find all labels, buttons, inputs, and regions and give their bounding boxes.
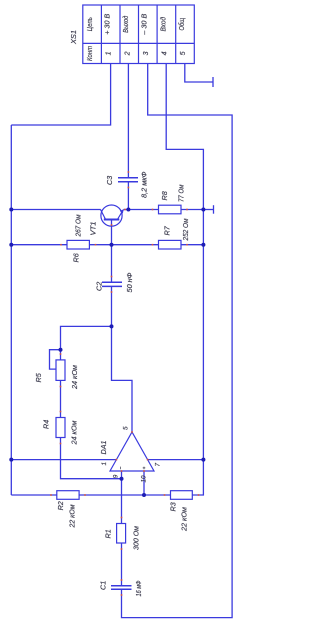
resistor R3 <box>171 491 193 500</box>
node L bus/R8/terminal <box>201 208 205 212</box>
capacitor C2 <box>102 282 122 286</box>
node J bus/pin7 <box>201 458 205 462</box>
svg-text:R8: R8 <box>160 191 169 200</box>
wire pin3 -30V rail around bottom to C1 <box>122 64 233 618</box>
svg-text:22 кОм: 22 кОм <box>182 507 189 532</box>
wire R7 bottom to input bus <box>181 244 203 246</box>
svg-text:Выход: Выход <box>122 16 130 33</box>
svg-text:4: 4 <box>161 51 168 55</box>
svg-text:R4: R4 <box>42 420 51 429</box>
resistor R1 <box>117 524 126 544</box>
svg-text:252 Ом: 252 Ом <box>183 218 190 241</box>
wire pin9 node riser to R4 <box>61 438 122 479</box>
wire rail corner down to R2 <box>11 494 57 496</box>
svg-text:2: 2 <box>124 51 131 56</box>
node F base <box>110 243 114 247</box>
resistor R7 <box>159 240 182 249</box>
wire base lead VT1 <box>111 220 113 245</box>
svg-text:77 Ом: 77 Ом <box>179 184 186 202</box>
svg-text:Вход: Вход <box>159 17 167 32</box>
wire pin1 +30V from table to rail <box>11 64 110 126</box>
capacitor C3 <box>118 178 138 182</box>
svg-text:С1: С1 <box>99 581 108 590</box>
wire emitter to node <box>124 209 129 211</box>
svg-text:16 мФ: 16 мФ <box>136 580 143 596</box>
wire C3 to emitter node <box>127 182 129 210</box>
wire pin4 Vhod input bus to R3 <box>166 64 203 496</box>
svg-text:22 кОм: 22 кОм <box>70 504 77 528</box>
svg-text:1: 1 <box>101 462 108 466</box>
wire op-amp pin10 to R2/R3 node <box>143 471 145 495</box>
node B rail/R6 <box>9 243 13 247</box>
svg-text:9: 9 <box>113 474 120 478</box>
wire R1 to C1 <box>121 543 123 586</box>
wire op-amp output pin5 to C2 <box>112 286 133 432</box>
wire R5 to output line <box>61 326 112 360</box>
svg-text:3: 3 <box>143 51 150 55</box>
resistor R2 <box>57 491 79 500</box>
resistor R6 <box>67 240 89 249</box>
svg-text:10: 10 <box>141 475 148 483</box>
svg-text:R7: R7 <box>163 225 172 235</box>
svg-text:– 30 В: – 30 В <box>142 13 149 35</box>
svg-text:R1: R1 <box>104 529 113 538</box>
node E pin10/R2R3 <box>142 493 146 497</box>
wire terminal stub on input bus <box>203 209 213 211</box>
wire terminal bar on input bus <box>213 205 215 214</box>
svg-text:XS1: XS1 <box>69 30 78 45</box>
svg-text:24 кОм: 24 кОм <box>72 365 79 390</box>
wire pin5 Obshch stub <box>185 64 213 83</box>
wire op-amp pin7 to input bus <box>148 459 204 461</box>
svg-text:R2: R2 <box>56 501 65 510</box>
svg-text:300 Ом: 300 Ом <box>133 526 140 550</box>
wire op-amp pin1 to +30V rail <box>11 459 116 461</box>
svg-text:DA1: DA1 <box>99 440 108 454</box>
wire pin2 Vyhod from table to C3 <box>127 64 129 178</box>
transistor VT1 <box>101 205 124 226</box>
wire R8 bottom to input bus <box>181 209 203 211</box>
svg-text:Конт: Конт <box>87 46 94 61</box>
capacitor C1 <box>111 586 132 590</box>
wire collector lead to rail <box>11 209 100 211</box>
svg-text:7: 7 <box>154 463 161 467</box>
wire terminal bar Obshch <box>212 77 214 87</box>
resistor R4 <box>56 418 65 438</box>
svg-text:R3: R3 <box>169 502 178 511</box>
node A rail/pin1-DA1 <box>9 458 13 462</box>
connector XS1 table <box>83 5 195 64</box>
svg-text:Общ: Общ <box>178 18 186 31</box>
wire C2 to base node <box>111 245 113 283</box>
svg-text:5: 5 <box>180 51 187 55</box>
svg-text:50 нФ: 50 нФ <box>127 272 134 292</box>
svg-text:1: 1 <box>106 51 113 55</box>
svg-text:С3: С3 <box>105 176 114 185</box>
svg-text:+ 30 В: + 30 В <box>105 13 112 34</box>
wire emitter node to R8 <box>128 209 158 211</box>
svg-text:VT1: VT1 <box>89 222 98 236</box>
wire +30V top rail <box>10 125 12 495</box>
wire R6 to R7 (through base node) <box>89 244 158 246</box>
resistor R8 <box>159 205 182 214</box>
node K bus/R7 <box>201 243 205 247</box>
svg-text:8,2 мкФ: 8,2 мкФ <box>142 171 149 198</box>
op-amp DA1 <box>110 432 154 471</box>
svg-text:24 кОм: 24 кОм <box>72 420 79 445</box>
svg-text:R5: R5 <box>34 372 43 382</box>
svg-text:С2: С2 <box>95 282 104 291</box>
svg-text:267 Ом: 267 Ом <box>76 214 83 237</box>
svg-text:R6: R6 <box>72 253 81 262</box>
wire R6 top lead from rail <box>11 244 67 246</box>
node D pin9/feedback <box>120 477 124 481</box>
op-amp input polarity marks <box>121 467 146 470</box>
resistor R5 (trimmer) <box>56 360 65 381</box>
wire R2 bottom to R3 top (through pin10 node) <box>79 494 170 496</box>
svg-text:5: 5 <box>123 426 130 430</box>
wire trimmer R5 tap <box>50 350 61 369</box>
component terminal markers <box>50 171 199 596</box>
wire R4 to R5 <box>60 380 62 417</box>
node C rail/collector <box>9 208 13 212</box>
svg-text:Цепь: Цепь <box>87 17 94 31</box>
wire op-amp pin9 to R1 <box>121 471 123 524</box>
node G output/feedback <box>110 324 114 328</box>
node H emitter/C3/R8 <box>126 208 130 212</box>
node I R5 tap <box>59 348 63 352</box>
